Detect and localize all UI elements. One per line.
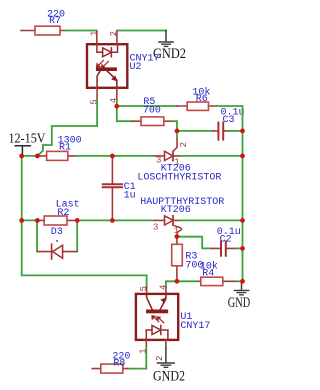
node K1 rail (240, 154, 245, 159)
node R2 left (35, 218, 40, 223)
svg-text:U2: U2 (130, 62, 142, 73)
svg-text:2: 2 (155, 356, 165, 361)
resistor R1 1300 (37, 135, 81, 160)
supply 12-15V (9, 130, 46, 154)
wire U2 pin4 down to node (116, 101, 118, 107)
op-amp U1 optocoupler CNY17 box (136, 294, 178, 340)
resistor R6 10k (177, 86, 217, 110)
svg-text:12-15V: 12-15V (9, 130, 46, 145)
wire C3 to right rail (229, 130, 243, 132)
wire gate K2 to C2 (177, 237, 211, 249)
ground GND2 bottom (153, 348, 185, 385)
resistor R2 Last (37, 200, 79, 225)
node K2 rail (240, 218, 245, 223)
U1 pin 2 (165, 340, 167, 348)
wire U2 pin2 to GND2 (117, 30, 166, 32)
capacitor C1 1u (103, 156, 136, 221)
svg-text:1: 1 (89, 31, 99, 36)
svg-text:4: 4 (158, 285, 168, 290)
wire supply rail (22, 155, 38, 157)
U1 LED light arrows (152, 316, 164, 323)
wire R1 to thyristor K1 (76, 155, 155, 157)
svg-text:C3: C3 (223, 115, 235, 126)
node gate K1 (175, 129, 180, 134)
svg-text:D3: D3 (51, 227, 63, 238)
svg-text:CNY17: CNY17 (180, 321, 210, 332)
svg-text:5: 5 (139, 286, 149, 291)
svg-text:2: 2 (179, 142, 189, 147)
ground GND (228, 281, 251, 311)
svg-text:R1: R1 (59, 143, 71, 154)
node C2 rail (240, 246, 245, 251)
capacitor C3 0.1u (213, 108, 245, 140)
node C1 top (110, 154, 115, 159)
thyristor K1 KT206 LOSCHTHYRISTOR (155, 138, 189, 168)
U2 internal LED (97, 44, 118, 56)
left rail wire (21, 156, 23, 221)
resistor R5 700 (133, 97, 173, 126)
svg-text:KT206: KT206 (161, 205, 191, 216)
svg-text:R7: R7 (49, 16, 61, 27)
node R2 right (75, 218, 80, 223)
resistor R4 10k (177, 261, 238, 286)
svg-text:C2: C2 (220, 234, 232, 245)
svg-text:R2: R2 (57, 208, 69, 219)
node K2 gate (175, 234, 180, 239)
U1 pin 1 (145, 340, 147, 347)
wire U1 pin1 to R8 (128, 347, 146, 368)
U2 pin 2 (116, 32, 118, 45)
wire R6 to right rail (216, 105, 242, 107)
node R1 left (35, 154, 40, 159)
svg-text:R4: R4 (202, 269, 214, 280)
svg-text:R6: R6 (196, 94, 208, 105)
right rail vertical wire (242, 106, 244, 281)
svg-text:GND: GND (228, 295, 251, 311)
U2 pin 1 (96, 32, 98, 45)
svg-text:LOSCHTHYRISTOR: LOSCHTHYRISTOR (137, 172, 221, 183)
U1 internal LED (146, 326, 168, 340)
wire C2 to right rail (236, 247, 243, 249)
node C1 bottom (110, 218, 115, 223)
wire left rail to U1 pin5 (22, 220, 147, 287)
resistor R3 700 vertical (172, 237, 204, 282)
resistor R8 220 (92, 352, 130, 374)
U1 pin 4 (165, 287, 167, 294)
svg-text:700: 700 (143, 106, 161, 117)
wire R5 to gate node (172, 121, 177, 131)
wire R4 to rail end (238, 280, 243, 282)
svg-text:3: 3 (153, 223, 158, 233)
capacitor C2 0.1u (211, 227, 241, 256)
op-amp U2 optocoupler CNY17 box (87, 44, 127, 88)
svg-text:1u: 1u (124, 191, 136, 202)
svg-text:2: 2 (109, 31, 119, 36)
node GND rail (240, 279, 245, 284)
thyristor K2 KT206 HAUPTTHYRISTOR (153, 216, 181, 237)
node rail2 left (19, 218, 24, 223)
diode D3 (37, 220, 77, 259)
U2 phototransistor (96, 68, 117, 88)
U2 pin 4 (116, 88, 118, 101)
wire R7 to U2 pin1 (66, 30, 97, 32)
wire K2 cathode to right rail (180, 219, 243, 221)
wire gate K1 (176, 131, 178, 138)
node R3 bottom (175, 279, 180, 284)
wire node down to R5 row (117, 106, 133, 121)
wire node to C3 (177, 130, 213, 132)
wire R2 to C1 bottom (77, 219, 155, 221)
svg-text:GND2: GND2 (153, 369, 185, 385)
wire K1 cathode to right rail (180, 155, 243, 157)
wire node to R6 (117, 105, 177, 107)
U1 phototransistor (146, 294, 168, 313)
svg-text:5: 5 (90, 99, 100, 104)
ground GND2 top (153, 31, 186, 63)
node pin4 junction (114, 104, 119, 109)
node supply (19, 154, 24, 159)
U2 pin 5 (96, 88, 98, 101)
node C3 rail (240, 129, 245, 134)
resistor R7 (21, 9, 66, 35)
svg-text:R8: R8 (113, 358, 125, 369)
wire rail2 (22, 219, 38, 221)
wire U1 pin4 to R3 node (166, 281, 177, 287)
wire U2 pin5 to supply rail (37, 101, 97, 156)
U1 pin 5 (146, 287, 148, 294)
U2 LED light arrows (97, 60, 109, 68)
